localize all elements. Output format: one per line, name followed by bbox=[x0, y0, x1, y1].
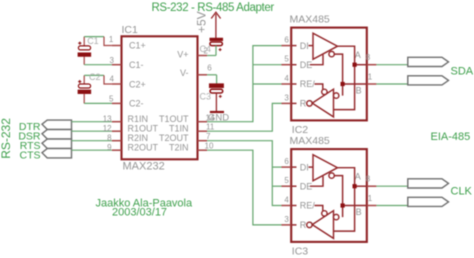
svg-text:C1+: C1+ bbox=[129, 41, 146, 51]
wire DTR to IC1 pin 13 bbox=[72, 121, 112, 123]
svg-text:B: B bbox=[356, 86, 362, 96]
svg-text:R2OUT: R2OUT bbox=[128, 142, 159, 152]
wire RTS to IC1 pin 8 bbox=[72, 140, 112, 142]
svg-text:1: 1 bbox=[109, 35, 114, 44]
IC3 pin numbers 6 5 4 3 8 1 bbox=[284, 157, 372, 224]
svg-text:DI: DI bbox=[300, 41, 309, 51]
pad CLK-B bbox=[408, 197, 449, 206]
IC2 RO output wire bbox=[291, 102, 296, 104]
svg-text:B: B bbox=[356, 207, 362, 217]
svg-text:T2OUT: T2OUT bbox=[159, 133, 189, 143]
IC2 receiver input bubble bbox=[334, 93, 339, 98]
IC2 junction on B line bbox=[341, 82, 345, 86]
connector tag DSR bbox=[42, 130, 72, 139]
wire net T2IN from IC3 RO bbox=[207, 150, 281, 225]
IC3 receiver output bubble bbox=[307, 222, 312, 227]
connector tag CTS bbox=[42, 149, 72, 158]
svg-text:8: 8 bbox=[366, 53, 371, 62]
svg-text:T2IN: T2IN bbox=[169, 143, 189, 153]
svg-text:6: 6 bbox=[284, 157, 289, 166]
svg-text:5: 5 bbox=[109, 94, 114, 103]
IC IC3 MAX485 body box bbox=[291, 149, 367, 242]
svg-text:IC3: IC3 bbox=[292, 246, 309, 258]
IC3 pin B wire bbox=[343, 205, 367, 207]
IC2 DI input wire bbox=[291, 45, 313, 47]
svg-text:MAX485: MAX485 bbox=[290, 14, 330, 26]
svg-text:8: 8 bbox=[107, 134, 112, 143]
IC3 internal wire bubble to B line bbox=[334, 176, 342, 218]
svg-text:IC1: IC1 bbox=[122, 24, 139, 36]
wire IC2 A to SDA pad bbox=[376, 64, 407, 66]
pad CLK bbox=[408, 179, 449, 188]
wire net T1OUT to IC2 control pins bbox=[207, 46, 281, 122]
svg-text:C2+: C2+ bbox=[129, 79, 146, 89]
svg-text:8: 8 bbox=[366, 175, 371, 184]
IC2 junction on A line bbox=[353, 63, 357, 67]
IC2 internal wire driver output to A line bbox=[334, 46, 355, 109]
svg-text:C2: C2 bbox=[89, 72, 101, 82]
capacitor C2 bbox=[78, 72, 112, 104]
svg-text:4: 4 bbox=[284, 195, 289, 204]
IC2 receiver output bubble bbox=[307, 101, 312, 106]
svg-text:5: 5 bbox=[284, 176, 289, 185]
wire DSR to IC1 pin 12 bbox=[72, 130, 112, 132]
svg-text:DI: DI bbox=[300, 162, 309, 172]
svg-text:4: 4 bbox=[284, 74, 289, 83]
IC3 receiver buffer triangle bbox=[312, 211, 333, 239]
IC2 driver inverting output bubble bbox=[329, 51, 334, 56]
svg-text:10: 10 bbox=[205, 141, 214, 150]
IC2 receiver buffer triangle bbox=[312, 89, 333, 117]
svg-text:T1OUT: T1OUT bbox=[159, 114, 189, 124]
svg-text:T1IN: T1IN bbox=[169, 124, 189, 134]
IC2 pin stubs bbox=[282, 46, 377, 104]
IC2 pin names DI DE RE/ RO A B bbox=[300, 41, 362, 109]
svg-text:CTS: CTS bbox=[20, 149, 41, 161]
IC2 pin B wire bbox=[343, 83, 367, 85]
connector tag RTS bbox=[42, 139, 72, 148]
svg-text:11: 11 bbox=[206, 122, 215, 131]
svg-text:7: 7 bbox=[206, 132, 211, 141]
IC2 DE enable wire bbox=[291, 55, 323, 65]
op IC1 MAX232 box bbox=[122, 36, 198, 159]
IC1 right pin numbers bbox=[204, 47, 215, 151]
svg-text:1: 1 bbox=[368, 194, 373, 203]
wire IC3 A to CLK pad bbox=[376, 185, 407, 187]
svg-text:R2IN: R2IN bbox=[128, 133, 149, 143]
svg-text:A: A bbox=[355, 172, 361, 182]
IC3 pin stubs bbox=[282, 167, 377, 225]
svg-text:13: 13 bbox=[103, 115, 112, 124]
svg-text:C3: C3 bbox=[200, 92, 212, 102]
svg-text:V-: V- bbox=[180, 68, 189, 78]
svg-text:R1OUT: R1OUT bbox=[128, 123, 159, 133]
IC1 left pin numbers bbox=[103, 35, 115, 152]
svg-text:MAX232: MAX232 bbox=[123, 160, 165, 172]
IC3 RE/ enable wire bbox=[291, 206, 323, 211]
svg-text:3: 3 bbox=[284, 93, 289, 102]
svg-text:C1-: C1- bbox=[129, 60, 144, 70]
svg-text:V+: V+ bbox=[177, 50, 188, 60]
IC3 DI input wire bbox=[291, 166, 313, 168]
IC2 pin numbers 6 5 4 3 8 1 bbox=[284, 36, 372, 103]
IC3 DE enable wire bbox=[291, 176, 323, 186]
pad SDA bbox=[408, 57, 449, 66]
IC1 pin names left column bbox=[128, 41, 159, 153]
svg-text:5: 5 bbox=[284, 55, 289, 64]
IC1 pin names right column bbox=[159, 50, 189, 153]
svg-text:RE/: RE/ bbox=[300, 79, 316, 89]
IC2 driver buffer triangle bbox=[313, 33, 338, 59]
svg-text:A: A bbox=[355, 50, 361, 60]
IC1 left pin stubs bbox=[112, 46, 122, 151]
IC3 pin A wire bbox=[355, 185, 367, 187]
IC3 driver inverting output bubble bbox=[329, 173, 334, 178]
svg-text:9: 9 bbox=[107, 143, 112, 152]
svg-text:CLK: CLK bbox=[451, 185, 473, 197]
IC IC2 MAX485 body box bbox=[291, 28, 367, 121]
wire net T1IN from IC2 RO bbox=[207, 103, 281, 131]
IC2 RE/ enable wire bbox=[291, 84, 323, 89]
svg-text:3: 3 bbox=[110, 56, 115, 65]
wire IC3 B to pad bbox=[376, 205, 407, 207]
svg-text:C4: C4 bbox=[200, 44, 212, 54]
svg-text:3: 3 bbox=[284, 215, 289, 224]
svg-text:RE/: RE/ bbox=[300, 201, 316, 211]
svg-text:C1: C1 bbox=[87, 36, 99, 46]
svg-text:RS-232: RS-232 bbox=[0, 118, 13, 159]
wire IC2 B to pad bbox=[376, 83, 407, 85]
wire net T2OUT to IC3 control pins bbox=[207, 141, 281, 206]
IC2 receiver enable bubble bbox=[322, 89, 327, 94]
svg-text:+5V: +5V bbox=[195, 11, 209, 33]
svg-text:C2-: C2- bbox=[129, 99, 144, 109]
+5V supply symbol bbox=[195, 11, 221, 38]
capacitor C1 bbox=[78, 36, 112, 65]
svg-text:1: 1 bbox=[368, 73, 373, 82]
IC3 pin names DI DE RE/ RO A B bbox=[300, 162, 362, 230]
svg-text:12: 12 bbox=[103, 124, 112, 133]
IC2 pin A wire bbox=[355, 64, 367, 66]
svg-text:MAX485: MAX485 bbox=[290, 135, 330, 147]
IC3 internal wire driver output to A line bbox=[334, 168, 355, 231]
connector tag DTR bbox=[42, 120, 72, 129]
wire CTS to IC1 pin 9 bbox=[72, 149, 112, 151]
svg-text:SDA: SDA bbox=[451, 66, 474, 78]
svg-text:4: 4 bbox=[110, 74, 115, 83]
IC3 receiver enable bubble bbox=[322, 211, 327, 216]
IC3 driver buffer triangle bbox=[313, 155, 338, 181]
svg-text:6: 6 bbox=[207, 64, 212, 73]
IC1 right pin stubs bbox=[198, 56, 208, 151]
capacitor C4 bbox=[200, 38, 223, 56]
IC3 junction on A line bbox=[353, 184, 357, 188]
ground symbol bbox=[210, 111, 224, 113]
IC3 RO output wire bbox=[291, 224, 296, 226]
svg-text:RS-232 - RS-485 Adapter: RS-232 - RS-485 Adapter bbox=[152, 2, 275, 14]
IC3 receiver input bubble bbox=[334, 214, 339, 219]
IC2 internal wire bubble to B line bbox=[334, 54, 342, 96]
svg-text:2003/03/17: 2003/03/17 bbox=[112, 207, 167, 219]
svg-text:R1IN: R1IN bbox=[128, 114, 149, 124]
capacitor C3 bbox=[200, 75, 224, 112]
pad SDA-B bbox=[408, 76, 449, 85]
IC3 junction on B line bbox=[341, 203, 345, 207]
svg-text:EIA-485: EIA-485 bbox=[431, 131, 471, 143]
svg-text:6: 6 bbox=[284, 36, 289, 45]
